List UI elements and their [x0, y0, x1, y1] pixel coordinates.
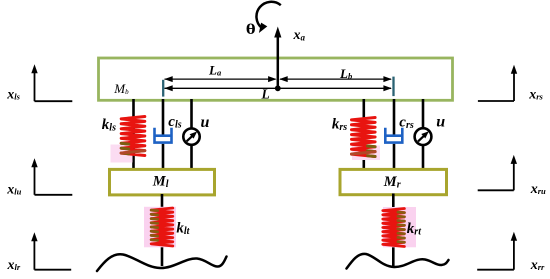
damper c_rs piston plate [385, 134, 403, 137]
damper c_ls piston plate [154, 134, 172, 137]
wheel mass M_l rectangle [110, 169, 215, 195]
svg-text:u: u [436, 114, 445, 131]
wire: right actuator rod lower [422, 145, 425, 170]
right dimension tick [392, 77, 394, 97]
tire spring k_lt [151, 208, 173, 246]
highlight behind spring k_ls [111, 145, 133, 163]
wire: right damper rod lower [393, 144, 396, 170]
axis x_lu [34, 164, 36, 195]
svg-text:θ: θ [246, 21, 256, 38]
axis x_rr [513, 238, 515, 270]
actuator u right arrow [418, 134, 426, 141]
svg-text:krs: krs [332, 117, 347, 134]
svg-text:xls: xls [6, 88, 20, 103]
wire: left actuator rod lower [190, 145, 193, 170]
wire: left spring rod [132, 99, 135, 170]
dimension line L_a [165, 78, 276, 80]
dimension line L [165, 87, 392, 89]
svg-text:xru: xru [530, 182, 546, 197]
wire: left actuator rod upper [190, 99, 193, 129]
dimension line L_b [280, 78, 391, 80]
rotation arrow theta (curved arc) [256, 2, 280, 28]
svg-text:xlr: xlr [7, 258, 21, 273]
svg-text:xlu: xlu [6, 183, 21, 198]
wire: right tire rod [392, 194, 395, 267]
svg-text:xrs: xrs [528, 88, 543, 103]
pivot node (centre of gravity dot) [275, 85, 281, 91]
actuator u left arrow [187, 134, 194, 141]
axis x_ls [34, 70, 36, 101]
tire spring k_rt [383, 209, 405, 247]
wire: right actuator rod upper [422, 99, 425, 129]
actuator u left (circle) [183, 128, 199, 144]
highlight behind spring k_rt [383, 207, 416, 247]
right road profile (wavy ground) [347, 254, 449, 269]
svg-text:cls: cls [168, 114, 181, 131]
wire: left damper rod upper [162, 99, 165, 136]
axis x_lr [33, 238, 35, 270]
axis x_rs [513, 71, 515, 101]
x_a centre line with arrow [277, 31, 280, 88]
svg-text:u: u [201, 114, 210, 131]
svg-text:klt: klt [176, 221, 190, 238]
left road profile (wavy ground) [97, 254, 227, 271]
svg-text:L: L [261, 86, 270, 101]
wire: right damper rod upper [393, 99, 396, 136]
wire: left damper rod lower [162, 144, 165, 170]
svg-text:xa: xa [293, 28, 306, 43]
damper c_ls cup [155, 128, 172, 143]
svg-text:kls: kls [102, 117, 116, 134]
suspension spring k_rs [352, 118, 376, 157]
actuator u right (circle) [415, 128, 432, 145]
highlight behind spring k_lt [144, 207, 176, 248]
highlight behind spring k_rs [352, 146, 380, 161]
left dimension tick [162, 80, 164, 97]
damper c_rs cup [385, 128, 402, 143]
svg-text:xrr: xrr [530, 258, 545, 273]
axis x_ru [513, 161, 515, 190]
wheel mass M_r rectangle [340, 169, 447, 194]
svg-text:crs: crs [399, 115, 414, 132]
suspension spring k_ls [121, 117, 145, 156]
body mass M_b rectangle [99, 58, 453, 100]
wire: right spring rod [362, 99, 365, 170]
wire: left tire rod [161, 194, 164, 266]
